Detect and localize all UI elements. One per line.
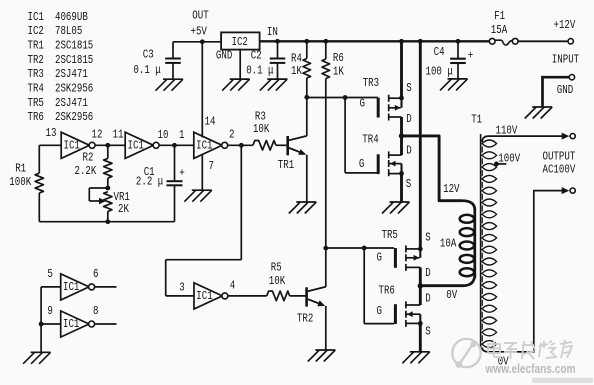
inverter IC1 gate E (pins 5-6) — [61, 274, 95, 300]
node IN junction — [275, 39, 280, 44]
svg-text:6: 6 — [93, 268, 98, 282]
svg-text:110V: 110V — [496, 125, 518, 139]
label IN — [267, 26, 278, 40]
svg-text:13: 13 — [46, 127, 57, 141]
wire oscillator bottom rail — [39, 221, 174, 223]
wire TR5/TR6 drains to primary 0V end — [420, 284, 464, 287]
svg-text:2SJ471: 2SJ471 — [55, 97, 88, 111]
wire secondary top to 110V output — [482, 136, 561, 142]
label R4 value 1K — [291, 65, 302, 79]
wire 100V tap stub — [496, 163, 506, 165]
svg-text:1: 1 — [179, 129, 184, 143]
ground input GND — [525, 107, 553, 119]
transformer secondary winding — [482, 140, 497, 348]
node TR5 source — [418, 247, 423, 252]
label OUT — [192, 9, 208, 23]
resistor R2 — [104, 145, 112, 188]
wire R5 to TR2 base — [290, 295, 306, 297]
ground under IC2 — [222, 79, 250, 91]
svg-text:IC1: IC1 — [63, 281, 79, 295]
label R5 — [271, 262, 282, 276]
label R5 value 10K — [269, 275, 286, 289]
label pin 1 — [179, 129, 184, 143]
label TR5 — [382, 229, 398, 243]
label pin 6 — [93, 268, 98, 282]
svg-text:2SK2956: 2SK2956 — [55, 83, 93, 97]
svg-text:12V: 12V — [443, 183, 460, 197]
svg-text:2.2K: 2.2K — [75, 165, 97, 179]
svg-text:0.1 μ: 0.1 μ — [246, 64, 273, 78]
wire TR2 emitter to ground — [325, 306, 327, 350]
label C3 — [143, 48, 154, 62]
svg-text:G: G — [377, 305, 382, 319]
label pin 14 — [205, 115, 216, 129]
label TR5 S — [425, 231, 430, 245]
fuse F1 — [489, 38, 518, 45]
wire IC1 pin14 supply drop — [201, 42, 203, 138]
wire IC1 pin 7 to ground — [201, 154, 203, 190]
wire gate B output — [159, 144, 194, 146]
node TR3 rail junction — [399, 39, 404, 44]
svg-text:0.1 μ: 0.1 μ — [133, 64, 160, 78]
svg-text:2K: 2K — [118, 203, 129, 217]
svg-text:100 μ: 100 μ — [426, 66, 453, 80]
node TR4 source — [399, 171, 404, 176]
svg-text:7: 7 — [209, 160, 214, 174]
node gate B output junction — [172, 143, 177, 148]
svg-text:R2: R2 — [83, 151, 94, 165]
label GND input — [557, 84, 573, 98]
svg-text:R1: R1 — [15, 162, 26, 176]
svg-text:2SC1815: 2SC1815 — [55, 40, 93, 54]
potentiometer VR1 — [104, 192, 112, 222]
label TR5 D — [425, 267, 430, 281]
inverter IC1 gate C (pins 1-2) — [194, 132, 228, 158]
svg-text:IN: IN — [267, 26, 278, 40]
wire gate C output — [228, 144, 253, 146]
wire TR3/TR4 drains to primary 12V end — [402, 136, 463, 201]
svg-text:C2: C2 — [251, 49, 262, 63]
svg-text:IC1: IC1 — [128, 139, 144, 153]
svg-text:TR2: TR2 — [28, 54, 44, 68]
label pin 2 — [229, 129, 234, 143]
wire secondary bottom to output — [482, 191, 561, 352]
svg-text:G: G — [359, 158, 364, 172]
svg-text:TR1: TR1 — [28, 40, 44, 54]
wire TR1 collector to R4 — [306, 97, 308, 136]
node gate A output junction — [105, 143, 110, 148]
terminal GND input — [569, 75, 574, 80]
svg-text:IC2: IC2 — [28, 25, 44, 39]
wire branch to TR6 gate — [364, 248, 394, 324]
svg-text:1K: 1K — [291, 65, 302, 79]
svg-text:10: 10 — [158, 129, 169, 143]
ground under C3 — [156, 79, 184, 91]
parts list text — [28, 11, 94, 125]
node unused gates junction — [39, 322, 44, 327]
node VR1 top junction — [105, 186, 110, 191]
wire gate drive TR5/TR6 — [326, 247, 394, 249]
wire gate E input — [41, 286, 61, 288]
label pin 4 — [230, 279, 235, 293]
wire IC2 GND pin — [239, 49, 241, 79]
label secondary 110V — [496, 125, 518, 139]
wire TR3/TR4 main vertical — [400, 41, 403, 202]
node +5V junction — [200, 39, 205, 44]
wire branch to TR4 gate — [345, 98, 377, 173]
resistor R3 — [253, 141, 276, 151]
wire GND terminal to ground — [541, 76, 569, 107]
label TR2 — [297, 312, 313, 326]
label GND of IC2 — [216, 49, 232, 63]
wire gate A input — [39, 144, 61, 146]
label TR3 gate G — [360, 97, 365, 111]
svg-text:IC2: IC2 — [232, 36, 248, 50]
label pin 3 — [179, 281, 184, 295]
wire TR2 collector up — [325, 248, 327, 287]
label C3 value 0.1u — [133, 64, 160, 78]
svg-text:14: 14 — [205, 115, 216, 129]
wire gate F input — [41, 323, 61, 325]
capacitor C1 — [167, 145, 183, 221]
inverter IC1 gate B (pins 11-10) — [125, 132, 159, 158]
ground under TR1 — [289, 202, 317, 214]
wire R3 to TR1 base — [276, 144, 286, 146]
svg-text:G: G — [377, 251, 382, 265]
ground under unused gates — [23, 352, 50, 364]
wire gate E output stub — [95, 286, 117, 288]
wire TR1 emitter to ground — [306, 155, 308, 202]
svg-text:78L05: 78L05 — [55, 25, 82, 39]
label primary 0V — [446, 289, 457, 303]
wire pin2 drop — [240, 145, 242, 259]
regulator IC2 box — [221, 32, 260, 49]
svg-text:D: D — [425, 267, 430, 281]
svg-text:2.2 μ: 2.2 μ — [136, 176, 163, 190]
label C2 value 0.1u — [246, 64, 273, 78]
svg-text:10K: 10K — [253, 123, 270, 137]
label pin 7 — [209, 160, 214, 174]
transistor TR5 — [394, 245, 420, 271]
label TR4 S — [406, 178, 411, 192]
transistor TR3 — [377, 95, 402, 121]
svg-text:11: 11 — [113, 129, 124, 143]
svg-text:+: + — [179, 167, 184, 181]
node TR4 gate branch — [343, 95, 348, 100]
svg-text:www.elecfans.com: www.elecfans.com — [485, 361, 576, 376]
svg-text:100V: 100V — [498, 153, 520, 167]
ground under TR2 — [308, 350, 336, 362]
svg-text:5: 5 — [47, 268, 52, 282]
transistor TR1 — [286, 136, 306, 155]
label TR3 — [363, 77, 379, 91]
ground under pin 7 — [184, 190, 212, 202]
label TR3 S — [406, 82, 411, 96]
svg-text:IC1: IC1 — [196, 139, 212, 153]
label OUTPUT — [543, 151, 576, 165]
label pin 9 — [47, 305, 52, 319]
svg-text:C3: C3 — [143, 48, 154, 62]
label C2 — [251, 49, 262, 63]
label R4 — [291, 52, 302, 66]
transistor TR2 — [305, 287, 326, 307]
transistor TR4 — [377, 151, 402, 176]
label pin 13 — [46, 127, 57, 141]
terminal +12V — [568, 39, 573, 44]
label R2 — [83, 151, 94, 165]
capacitor C4 — [450, 41, 466, 79]
node VR1 bottom junction — [105, 219, 110, 224]
label T1 — [471, 114, 482, 128]
svg-text:1K: 1K — [333, 66, 344, 80]
label C1 value 2.2u — [136, 176, 163, 190]
svg-text:2SC1815: 2SC1815 — [55, 54, 93, 68]
label pin 5 — [47, 268, 52, 282]
label INPUT — [552, 53, 579, 67]
label AC100V — [543, 163, 576, 177]
wire jog to gate D — [166, 260, 242, 296]
resistor R4 — [303, 41, 311, 97]
wire gate D output — [228, 295, 267, 297]
inverter IC1 gate D (pins 3-4) — [194, 283, 228, 309]
svg-text:100K: 100K — [9, 176, 31, 190]
svg-text:15A: 15A — [491, 24, 508, 38]
svg-text:D: D — [406, 113, 411, 127]
wire main +12V rail — [260, 40, 490, 42]
svg-text:2: 2 — [229, 129, 234, 143]
node C4 junction — [456, 39, 461, 44]
node TR6 gate branch — [362, 246, 367, 251]
svg-text:TR4: TR4 — [362, 134, 378, 148]
label VR1 value 2K — [118, 203, 129, 217]
label C4 — [434, 46, 445, 60]
label R6 — [333, 52, 344, 66]
label VR1 — [114, 191, 130, 205]
label R3 value 10K — [253, 123, 270, 137]
svg-text:+12V: +12V — [554, 19, 576, 33]
wire gate A output — [95, 144, 125, 146]
label +12V — [554, 19, 576, 33]
inverter IC1 gate F (pins 9-8) — [61, 311, 95, 337]
svg-text:G: G — [360, 97, 365, 111]
node 100V tap — [494, 162, 499, 167]
transformer core — [480, 134, 482, 353]
svg-text:12: 12 — [92, 129, 103, 143]
svg-text:4: 4 — [230, 279, 235, 293]
terminal output hot — [562, 133, 576, 140]
svg-text:AC100V: AC100V — [543, 163, 576, 177]
label primary 12V — [443, 183, 460, 197]
label pin 12 — [92, 129, 103, 143]
label R6 value 1K — [333, 66, 344, 80]
label C1 plus — [179, 167, 184, 181]
svg-text:4069UB: 4069UB — [55, 11, 88, 25]
label +5V — [191, 25, 208, 39]
label pin 10 — [158, 129, 169, 143]
node R6 top — [323, 39, 328, 44]
label R3 — [255, 110, 266, 124]
label pin 8 — [93, 305, 98, 319]
node TR2 collector junction — [323, 246, 328, 251]
VR1 wiper arm — [89, 188, 108, 204]
svg-text:IC1: IC1 — [196, 290, 212, 304]
svg-text:TR1: TR1 — [278, 159, 294, 173]
wire gate F output stub — [95, 323, 117, 325]
label primary 10A — [440, 238, 457, 252]
node gate C output junction — [239, 143, 244, 148]
svg-text:R3: R3 — [255, 110, 266, 124]
transistor TR6 — [394, 301, 420, 327]
label TR6 S — [425, 325, 430, 339]
svg-text:2SJ471: 2SJ471 — [55, 68, 88, 82]
node TR6 source — [418, 321, 423, 326]
label secondary 0V — [498, 355, 509, 369]
label R2 value 2.2K — [75, 165, 97, 179]
svg-text:OUTPUT: OUTPUT — [543, 151, 576, 165]
wire fuse to +12V terminal — [518, 40, 568, 42]
label R1 — [15, 162, 26, 176]
capacitor C2 — [270, 41, 286, 79]
svg-text:C4: C4 — [434, 46, 445, 60]
node TR5 TR6 drain junction — [418, 283, 423, 288]
capacitor C3 — [165, 42, 181, 79]
label F1 — [494, 10, 505, 24]
svg-text:S: S — [406, 82, 411, 96]
label C4 plus — [468, 50, 473, 64]
svg-text:TR3: TR3 — [363, 77, 379, 91]
label TR4 gate G — [359, 158, 364, 172]
svg-text:TR6: TR6 — [28, 111, 44, 125]
terminal output neutral — [562, 187, 576, 194]
label TR6 gate G — [377, 305, 382, 319]
resistor R6 — [322, 41, 330, 248]
svg-text:D: D — [425, 292, 430, 306]
svg-text:GND: GND — [216, 49, 232, 63]
svg-text:10K: 10K — [269, 275, 286, 289]
label C4 value 100u — [426, 66, 453, 80]
label TR5 gate G — [377, 251, 382, 265]
op-amp.. inverter IC1 gate A (pins 13-12) — [61, 132, 95, 158]
node TR5 rail junction — [418, 39, 423, 44]
svg-text:2SK2956: 2SK2956 — [55, 111, 93, 125]
label R1 value 100K — [9, 176, 31, 190]
label TR4 — [362, 134, 378, 148]
wire +5V rail C3 to IC2 — [173, 41, 221, 43]
svg-text:TR6: TR6 — [379, 284, 395, 298]
svg-text:+5V: +5V — [191, 25, 208, 39]
svg-text:3: 3 — [179, 281, 184, 295]
svg-text:IC1: IC1 — [28, 11, 44, 25]
label TR4 D — [406, 145, 411, 159]
svg-text:R6: R6 — [333, 52, 344, 66]
svg-text:INPUT: INPUT — [552, 53, 579, 67]
svg-text:+: + — [468, 50, 473, 64]
svg-text:TR2: TR2 — [297, 312, 313, 326]
svg-text:S: S — [425, 325, 430, 339]
svg-text:0V: 0V — [446, 289, 457, 303]
svg-text:R5: R5 — [271, 262, 282, 276]
svg-text:TR3: TR3 — [28, 68, 44, 82]
svg-text:S: S — [406, 178, 411, 192]
svg-text:D: D — [406, 145, 411, 159]
svg-text:GND: GND — [557, 84, 573, 98]
node R4 top — [304, 39, 309, 44]
wire unused inputs to ground — [40, 287, 42, 352]
svg-text:IC1: IC1 — [63, 318, 79, 332]
ground under TR6 — [402, 352, 430, 364]
resistor R1 — [35, 145, 43, 221]
svg-text:TR4: TR4 — [28, 83, 44, 97]
svg-text:S: S — [425, 231, 430, 245]
svg-text:8: 8 — [93, 305, 98, 319]
svg-text:TR5: TR5 — [28, 97, 44, 111]
svg-text:T1: T1 — [471, 114, 482, 128]
label TR6 D — [425, 292, 430, 306]
label F1 value 15A — [491, 24, 508, 38]
ground under C4 — [440, 79, 468, 91]
node TR3 source — [399, 96, 404, 101]
resistor R5 — [267, 291, 290, 301]
label TR6 — [379, 284, 395, 298]
label TR3 D — [406, 113, 411, 127]
svg-text:IC1: IC1 — [64, 139, 80, 153]
label secondary 100V — [498, 153, 520, 167]
watermark elecfans logo and text — [452, 339, 593, 383]
label pin 11 — [113, 129, 124, 143]
svg-text:TR5: TR5 — [382, 229, 398, 243]
svg-text:OUT: OUT — [192, 9, 208, 23]
label C1 — [144, 166, 155, 180]
ground under C2 — [260, 79, 288, 91]
svg-text:9: 9 — [47, 305, 52, 319]
node R4 bottom junction — [304, 95, 309, 100]
ground under TR4 — [382, 202, 410, 214]
svg-text:10A: 10A — [440, 238, 457, 252]
transformer primary winding — [460, 201, 475, 286]
svg-text:F1: F1 — [494, 10, 505, 24]
wire TR5/TR6 main vertical — [419, 41, 422, 352]
label TR1 — [278, 159, 294, 173]
wire gate drive TR3/TR4 — [307, 97, 378, 99]
node TR3 TR4 drain junction — [399, 133, 404, 138]
